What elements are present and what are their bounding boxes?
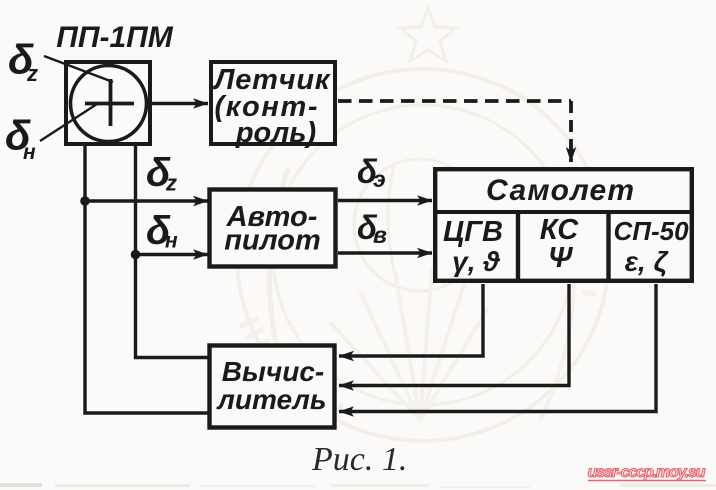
wire delta-e autopilot to aircraft: [338, 199, 432, 202]
faint emblem watermark: [237, 8, 609, 441]
wire KS to computer: [339, 284, 569, 386]
svg-text:роль): роль): [235, 117, 316, 149]
svg-text:γ, ϑ: γ, ϑ: [452, 246, 501, 277]
junction dot delta-z: [80, 196, 90, 206]
right vertical wire from indicator (x=135.5): [136, 146, 210, 358]
bottom scan smudges: [0, 483, 716, 488]
svg-text:ussr-cccp.moy.su: ussr-cccp.moy.su: [588, 464, 706, 481]
wire TsGV to computer: [339, 284, 483, 356]
cell divider 1: [516, 212, 520, 281]
dashed wire pilot to aircraft: [338, 99, 571, 103]
svg-text:ПП-1ПМ: ПП-1ПМ: [56, 21, 173, 54]
header divider: [433, 210, 694, 214]
flight director indicator PP-1PM (square): [66, 62, 150, 144]
left vertical wire from indicator (x=85): [85, 146, 209, 413]
command bars cross: [85, 79, 134, 126]
svg-text:Ψ: Ψ: [548, 242, 574, 274]
junction dot delta-n: [131, 250, 141, 260]
svg-text:э: э: [373, 166, 386, 192]
autopilot box: [210, 190, 336, 267]
svg-text:литель: литель: [215, 384, 326, 415]
pilot (control) box: [211, 62, 335, 144]
wire SP-50 to computer: [339, 284, 656, 412]
wire delta-n to autopilot: [136, 253, 209, 256]
svg-text:ε, ζ: ε, ζ: [625, 246, 669, 277]
svg-text:Вычис-: Вычис-: [222, 356, 324, 387]
cell SP-50: [613, 216, 689, 277]
svg-text:Рис. 1.: Рис. 1.: [311, 441, 407, 478]
aircraft (Samolet) outer box: [435, 169, 692, 281]
wire indicator to pilot: [152, 102, 208, 106]
cell TsGV: [443, 216, 503, 277]
wire delta-v autopilot to aircraft: [338, 251, 432, 254]
svg-text:Самолет: Самолет: [486, 174, 634, 207]
svg-text:z: z: [165, 171, 177, 196]
svg-text:z: z: [26, 61, 38, 86]
leader line delta-z: [44, 56, 113, 82]
svg-text:н: н: [23, 141, 36, 164]
svg-text:ЦГВ: ЦГВ: [443, 216, 503, 248]
leader line delta-n: [40, 104, 97, 141]
cell KS: [540, 214, 579, 274]
computer (Vychislitel) box: [210, 346, 335, 428]
cell divider 2: [606, 212, 610, 281]
svg-text:СП-50: СП-50: [613, 216, 689, 246]
wire delta-z to autopilot: [85, 199, 208, 202]
svg-text:пилот: пилот: [224, 225, 321, 257]
svg-text:в: в: [373, 222, 387, 248]
svg-text:н: н: [165, 230, 178, 253]
indicator circle: [71, 66, 147, 142]
